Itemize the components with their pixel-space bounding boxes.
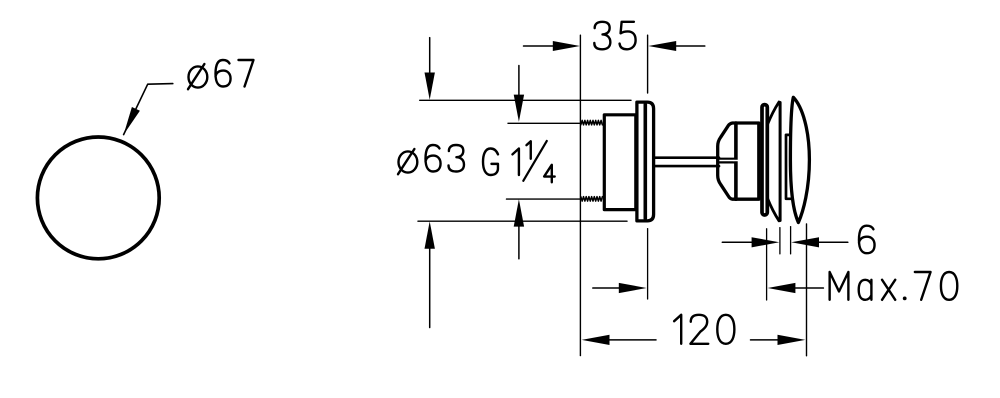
dim 6 right extension line bbox=[790, 227, 792, 254]
thread diameter line top bbox=[508, 122, 580, 124]
dim 35 right tail bbox=[676, 45, 705, 47]
dim 35 left tail bbox=[524, 45, 554, 47]
dim 35 left arrowhead bbox=[553, 41, 580, 51]
small numeral 1 bbox=[526, 141, 530, 159]
dim G1-1/4 bottom arrow shaft bbox=[518, 227, 520, 259]
dim Max70 left extension line bbox=[647, 229, 649, 299]
dim Max70 right extension line bbox=[766, 229, 768, 300]
dimension text diameter 67 bbox=[189, 66, 208, 87]
dim dia63 top arrow shaft bbox=[429, 38, 431, 73]
dim 120 right tail bbox=[751, 339, 778, 341]
dim 35 right extension line bbox=[647, 35, 649, 93]
valve body rectangle bbox=[604, 115, 636, 210]
dim 120 left arrowhead bbox=[582, 335, 610, 345]
dim 6 right arrowhead bbox=[791, 237, 819, 247]
dim 120 left tail bbox=[610, 339, 657, 341]
leader arrowhead bbox=[124, 107, 140, 135]
dimension text G1 bbox=[483, 149, 498, 176]
dim Max70 left tail bbox=[593, 287, 619, 289]
dim dia63 bottom arrow shaft bbox=[429, 249, 431, 328]
dim Max70 right arrowhead bbox=[768, 283, 796, 293]
dim G1-1/4 top arrow shaft bbox=[518, 66, 520, 96]
extension line left x=580 bbox=[579, 35, 581, 355]
thread diameter line bottom bbox=[507, 198, 581, 200]
flange rounded disc bbox=[637, 102, 654, 221]
poppet cone junction line bbox=[734, 123, 738, 199]
dim G1-1/4 bottom arrowhead bbox=[514, 199, 524, 226]
dim dia63 bottom arrowhead bbox=[425, 221, 435, 248]
dim Max70 left arrowhead bbox=[619, 283, 647, 293]
dim 120 right extension line bbox=[806, 224, 808, 356]
flange diameter line top bbox=[420, 99, 631, 101]
thread zigzag bottom edge bbox=[581, 197, 603, 202]
dimension text diameter 63 bbox=[399, 151, 418, 172]
dim 6 left extension line bbox=[779, 228, 781, 254]
dim dia63 top arrowhead bbox=[425, 73, 435, 100]
thread zigzag top edge bbox=[581, 120, 603, 125]
dim 6 left arrowhead bbox=[752, 237, 780, 247]
dim 35 right arrowhead bbox=[648, 41, 676, 51]
flange diameter line bottom bbox=[418, 220, 627, 222]
dome cap crescent bbox=[790, 97, 809, 222]
dimension text 6 bbox=[859, 226, 875, 254]
small numeral 4 bbox=[544, 165, 555, 183]
dim Max70 right tail bbox=[795, 287, 823, 289]
bell right face bbox=[779, 103, 782, 221]
bell top flare bbox=[768, 102, 780, 125]
dim 6 left tail bbox=[722, 241, 752, 243]
bell bottom flare bbox=[768, 198, 780, 221]
dimension text 35 bbox=[594, 22, 610, 50]
flange inner face line bbox=[643, 105, 647, 219]
dimension text Max70 bbox=[830, 272, 849, 300]
dimension text 120 bbox=[674, 315, 681, 344]
circle: plug cap top view bbox=[37, 137, 159, 259]
rod gap over junction bbox=[734, 160, 738, 162]
stem rod upper line bbox=[654, 156, 719, 159]
fraction slash bbox=[523, 141, 547, 181]
boss between bell and cap bbox=[786, 135, 792, 199]
dim 120 right arrowhead bbox=[778, 335, 806, 345]
stem rod lower line bbox=[654, 165, 719, 168]
poppet cone outline bbox=[718, 123, 759, 199]
dim 6 right tail bbox=[819, 241, 848, 243]
rod inner threaded segment bbox=[719, 158, 736, 160]
dim G1-1/4 top arrowhead bbox=[514, 95, 524, 122]
seal washer disc bbox=[762, 105, 767, 215]
leader line for diameter 67 bbox=[124, 84, 173, 135]
